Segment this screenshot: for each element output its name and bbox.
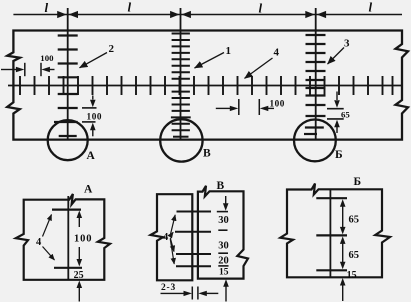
dimension 2-3 (gap between plates) xyxy=(161,283,219,299)
label l (span 3) xyxy=(259,1,263,16)
dimension column 30/30/20/15 (detail B) xyxy=(217,196,229,302)
svg-text:65: 65 xyxy=(349,215,360,226)
detail A outline with break marks xyxy=(16,194,110,280)
svg-text:4: 4 xyxy=(274,47,280,59)
svg-text:25: 25 xyxy=(74,270,84,281)
svg-text:65: 65 xyxy=(349,250,360,261)
pointer 1 (scale B) xyxy=(195,45,232,68)
pointer 4 (detail B) xyxy=(163,215,175,264)
measuring scale A tick marks xyxy=(54,36,78,137)
wheel Б xyxy=(294,119,336,161)
label A (wheel) xyxy=(87,150,96,162)
svg-text:100: 100 xyxy=(74,234,92,245)
marking line (detail Б) xyxy=(329,189,331,277)
measuring scale A (vertical line) xyxy=(67,8,69,139)
dimension 100 on axis (between marks) xyxy=(216,99,285,115)
svg-text:15: 15 xyxy=(219,267,229,277)
svg-text:3: 3 xyxy=(344,38,350,50)
label B (wheel) xyxy=(203,148,211,160)
dimension arrow pair at division x=315.7 xyxy=(305,11,326,18)
dimension 25 (detail A) xyxy=(74,270,84,302)
wear mark 4 (detail B) xyxy=(176,265,211,267)
pointer 4 (detail A) xyxy=(36,215,55,261)
label В (detail) xyxy=(217,180,225,192)
svg-text:30: 30 xyxy=(218,240,229,251)
svg-text:Б: Б xyxy=(354,176,362,188)
svg-text:15: 15 xyxy=(347,270,357,281)
measuring scale B (vertical line) xyxy=(180,8,182,141)
detail Б outline with break marks xyxy=(280,184,390,278)
detail B left plate outline with break mark xyxy=(151,194,193,280)
svg-text:100: 100 xyxy=(270,99,285,109)
wheel B xyxy=(160,119,202,161)
svg-text:1: 1 xyxy=(226,45,232,57)
rail axis line xyxy=(8,85,402,87)
svg-text:30: 30 xyxy=(218,215,229,226)
svg-text:2: 2 xyxy=(109,43,115,55)
label l (span 4) xyxy=(369,0,373,15)
dimension 65 upper (detail Б) xyxy=(340,199,359,234)
marking line (detail A) xyxy=(67,196,69,280)
label l (span 1) xyxy=(45,0,49,15)
svg-text:А: А xyxy=(87,150,96,162)
dimension 100 (detail A) xyxy=(74,211,92,267)
pointer 3 (scale Б) xyxy=(328,38,351,65)
svg-text:В: В xyxy=(203,148,211,160)
wear mark 2 (detail A) xyxy=(54,267,82,269)
dimension 65 lower (detail Б) xyxy=(340,236,359,269)
svg-text:l: l xyxy=(369,0,373,15)
svg-text:Б: Б xyxy=(335,149,343,161)
measuring scale Б tick marks xyxy=(304,35,326,134)
label Б (wheel) xyxy=(335,149,343,161)
pointer 4 (axis marks) xyxy=(245,47,280,79)
svg-text:20: 20 xyxy=(218,255,229,266)
measuring scale B tick marks xyxy=(171,34,191,137)
wear mark 1 (detail B) xyxy=(177,211,212,213)
label l (span 2) xyxy=(128,0,132,15)
rail outline with break marks xyxy=(7,31,408,140)
measuring scale Б (vertical line) xyxy=(315,8,317,141)
wear mark 1 (detail Б) xyxy=(316,197,347,199)
dimension arrow pair at division x=180.5 xyxy=(170,11,191,18)
dimension 15 (detail Б) xyxy=(340,270,357,301)
svg-text:4: 4 xyxy=(163,232,169,243)
dimension 100 at left rail end xyxy=(1,53,55,76)
svg-text:l: l xyxy=(45,0,49,15)
dimension line l (top) xyxy=(13,14,402,16)
wear mark 2 (detail B) xyxy=(175,231,211,233)
axis tick marks xyxy=(20,76,393,95)
svg-text:4: 4 xyxy=(36,237,42,248)
svg-text:l: l xyxy=(128,0,132,15)
svg-text:2-3: 2-3 xyxy=(161,283,176,293)
pointer 2 (scale A) xyxy=(80,43,115,68)
label Б (detail) xyxy=(354,176,362,188)
dimension 65 below axis at Б xyxy=(327,92,350,134)
dimension 100 below axis at A xyxy=(82,96,102,137)
svg-text:100: 100 xyxy=(87,112,103,122)
svg-text:100: 100 xyxy=(40,53,54,63)
wheel A xyxy=(48,120,88,160)
dimension arrow pair at division x=67.6 xyxy=(57,11,78,18)
wear mark 2 (detail Б) xyxy=(316,234,347,236)
svg-text:l: l xyxy=(259,1,263,16)
wear mark 3 (detail B) xyxy=(176,253,211,255)
label А (detail) xyxy=(84,184,93,196)
wear mark 1 (detail A) xyxy=(52,209,81,211)
svg-text:А: А xyxy=(84,184,93,196)
wear mark 3 (detail Б) xyxy=(316,269,347,271)
detail B right plate outline with break marks xyxy=(198,186,248,279)
